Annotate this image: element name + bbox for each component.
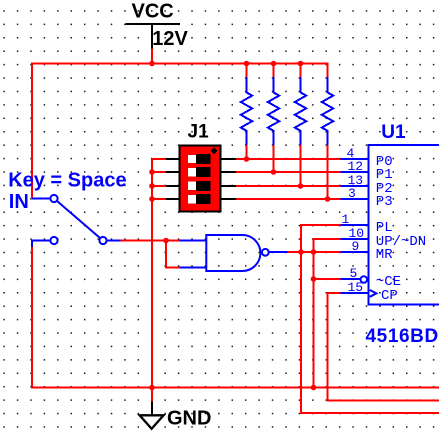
svg-text:P3: P3 bbox=[376, 194, 393, 210]
svg-text:15: 15 bbox=[348, 280, 364, 295]
svg-text:12V: 12V bbox=[152, 28, 188, 50]
svg-text:GND: GND bbox=[167, 407, 211, 429]
svg-text:IN: IN bbox=[9, 191, 29, 213]
svg-text:CP: CP bbox=[381, 288, 398, 304]
svg-text:4516BD: 4516BD bbox=[366, 326, 439, 347]
svg-text:VCC: VCC bbox=[132, 1, 174, 23]
svg-text:12: 12 bbox=[348, 159, 364, 174]
svg-text:U1: U1 bbox=[381, 122, 406, 143]
svg-text:9: 9 bbox=[352, 239, 360, 254]
svg-text:5: 5 bbox=[350, 266, 358, 281]
svg-text:J1: J1 bbox=[188, 122, 210, 143]
svg-text:MR: MR bbox=[376, 247, 393, 263]
svg-text:1: 1 bbox=[342, 212, 350, 227]
svg-text:Key = Space: Key = Space bbox=[8, 170, 126, 192]
svg-text:3: 3 bbox=[348, 186, 356, 201]
